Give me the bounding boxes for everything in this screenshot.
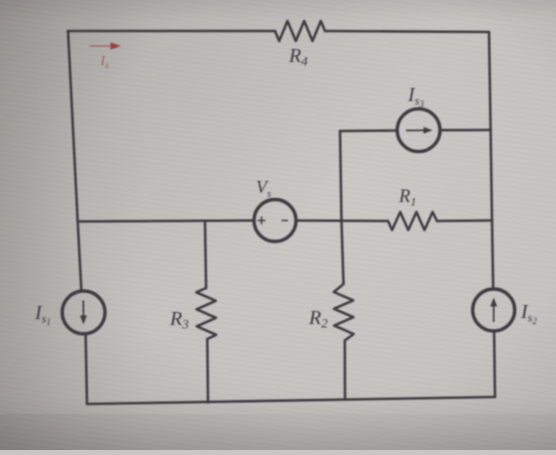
wire: Vs right to mid vertical junction [296,219,388,222]
wire: mid vertical upper (Is3 node down through middle wire) [340,131,342,222]
wire: bottom edge [87,397,495,404]
resistor R1 [388,212,437,230]
wire: top edge left of R4 [68,30,275,33]
current source Is2 [473,289,515,331]
current source Is3 [397,109,440,152]
wire: R3 branch top [205,223,206,289]
wire: R1 right to right edge [437,219,492,222]
resistor R3 [196,288,216,339]
voltage source Vs [254,200,296,242]
wire: right edge to Is2 top [492,221,493,290]
wire: R3 bottom to bottom edge [206,339,209,403]
resistor R4 [275,21,325,41]
wire: Is3 branch left segment [340,129,397,132]
wire: Is3 right to right edge [440,129,491,132]
current source Is1 [62,291,105,334]
wire: top edge right of R4 [325,31,489,32]
wire: Is1 bottom to bottom-left corner [86,334,87,404]
wire: left edge top to middle junction [68,31,78,222]
wire: Is2 bottom to bottom-right corner [493,331,496,397]
wire: right edge mid (Is3 node to middle wire) [491,130,492,221]
wire: mid vertical to R2 top [342,222,344,284]
resistor R2 [334,284,354,341]
wire: right edge upper [489,32,491,130]
wire: left edge middle to Is1 top [78,222,82,292]
wire: R2 bottom to bottom edge [344,341,347,400]
current arrow Ix (red) [90,45,112,47]
wire: middle horizontal left of Vs [78,221,254,222]
